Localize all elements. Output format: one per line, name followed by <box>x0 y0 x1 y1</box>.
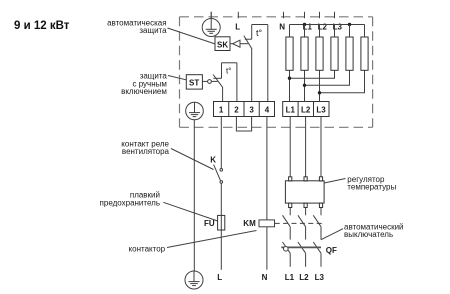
svg-text:L2: L2 <box>301 105 311 114</box>
svg-text:QF: QF <box>326 246 337 255</box>
node dot on bus at E2 <box>303 23 306 26</box>
svg-text:L2: L2 <box>299 273 309 282</box>
wire SK to triangle <box>230 43 233 45</box>
svg-text:SK: SK <box>217 41 228 50</box>
leader to SK <box>168 28 216 44</box>
cable entry tick (PE) <box>210 12 212 18</box>
svg-text:вентилятора: вентилятора <box>122 147 170 156</box>
cable entry tick (L2) <box>319 12 321 18</box>
leader to ST <box>168 76 186 80</box>
leader to QF <box>321 229 343 240</box>
QF breaker pole L1 <box>283 242 291 267</box>
node dot E2 join <box>303 84 306 87</box>
svg-text:предохранитель: предохранитель <box>100 198 160 207</box>
ST contact stub <box>213 77 221 79</box>
svg-text:L3: L3 <box>315 273 325 282</box>
heater top bus <box>290 24 365 26</box>
leader from regulator box <box>324 179 345 184</box>
KM main contact L3 <box>313 208 321 240</box>
manual reset circle <box>208 80 212 84</box>
wire K to fuse and down to L <box>220 183 222 270</box>
fuse FU <box>218 215 225 230</box>
link triangle <box>233 40 240 47</box>
QF breaker pole L2 <box>298 242 306 267</box>
heating element E6 <box>361 37 368 70</box>
KM main contact L2 <box>298 208 306 240</box>
QF release circle <box>284 247 289 252</box>
QF linkage bar <box>281 246 321 248</box>
ST box <box>186 75 202 89</box>
wire circle to blade <box>211 80 217 82</box>
cable entry tick (L3) <box>334 12 336 18</box>
cable entry tick (L1) <box>304 12 306 18</box>
thermostat ST body t-box <box>222 63 237 102</box>
leader to FU <box>163 202 217 221</box>
QF breaker pole L3 <box>313 242 321 267</box>
svg-text:L: L <box>217 273 222 282</box>
temperature regulator box <box>285 177 324 208</box>
enclosure dashed border <box>180 17 373 128</box>
SK contact blade <box>244 36 252 49</box>
wire triangle to blade <box>240 43 248 45</box>
SK contact stub <box>245 38 252 40</box>
element bottom wires to terminals <box>290 70 320 101</box>
element drop wires <box>290 25 365 38</box>
svg-text:KM: KM <box>243 219 256 228</box>
heating element E3 <box>316 37 323 70</box>
terminal block L1 L2 L3 <box>283 102 329 117</box>
protective earth circle top <box>202 12 220 37</box>
svg-text:L: L <box>235 23 240 32</box>
PE wire down <box>193 120 195 271</box>
jumper terminals 2-3 <box>236 117 251 132</box>
svg-text:контактор: контактор <box>129 245 166 254</box>
ST contact blade <box>213 75 223 88</box>
svg-text:N: N <box>262 273 268 282</box>
wire terminal1 down to K <box>220 117 222 169</box>
heating element E5 <box>346 37 353 70</box>
cable entry tick (L) <box>237 12 239 18</box>
svg-text:L3: L3 <box>316 105 326 114</box>
svg-text:4: 4 <box>265 105 270 114</box>
node dot E3 join <box>318 91 321 94</box>
svg-text:ST: ST <box>189 79 199 88</box>
node dot E1 join <box>288 77 291 80</box>
join E2-E5 <box>305 70 350 85</box>
PE earth circle bottom <box>185 271 203 289</box>
svg-text:t°: t° <box>226 66 231 75</box>
svg-text:L1: L1 <box>286 105 296 114</box>
join E3-E6 <box>320 70 365 93</box>
heating element E4 <box>331 37 338 70</box>
leader to KM <box>167 231 257 248</box>
leader to K <box>171 149 214 170</box>
thermostat SK body t-box <box>252 25 268 102</box>
svg-text:2: 2 <box>234 105 239 114</box>
earth circle inside enclosure <box>186 102 204 120</box>
svg-text:3: 3 <box>249 105 254 114</box>
wire ST to reset circle <box>202 80 207 82</box>
heating element E2 <box>301 37 308 70</box>
wires L1 L2 L3 from terminals to regulator <box>290 117 321 177</box>
svg-text:FU: FU <box>204 219 215 228</box>
svg-text:K: K <box>210 155 216 164</box>
svg-text:L1: L1 <box>285 273 295 282</box>
svg-text:9 и 12 кВт: 9 и 12 кВт <box>14 20 70 32</box>
svg-text:t°: t° <box>256 28 263 38</box>
svg-text:1: 1 <box>219 105 224 114</box>
node dot on bus at E5 <box>348 23 351 26</box>
join E1-E4 <box>290 70 335 78</box>
wire terminal4 N down <box>266 117 268 270</box>
K contact <box>214 165 223 184</box>
cable entry tick (N) <box>283 12 285 18</box>
svg-text:температуры: температуры <box>347 183 396 192</box>
heating element E1 <box>286 37 293 70</box>
svg-text:выключатель: выключатель <box>344 230 393 239</box>
svg-text:защита: защита <box>139 26 167 35</box>
svg-text:включением: включением <box>121 87 167 96</box>
contactor coil KM <box>259 220 275 227</box>
KM main contact L1 <box>283 208 291 240</box>
KM linkage dashed <box>275 222 322 224</box>
svg-text:N: N <box>279 23 285 32</box>
terminal block 1 2 3 4 <box>214 102 275 117</box>
thermostat SK box <box>215 37 230 51</box>
